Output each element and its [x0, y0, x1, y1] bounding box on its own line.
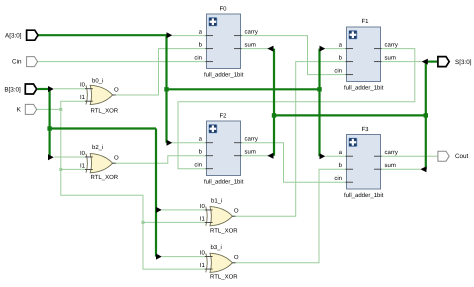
svg-text:a: a	[339, 150, 343, 156]
wire net K branch to b0_i.I1	[61, 101, 86, 109]
full adder F1 pin stubs	[346, 49, 382, 75]
svg-text:b: b	[199, 149, 203, 156]
full adder F3	[347, 135, 381, 190]
bus A junction dot	[164, 87, 168, 91]
svg-text:a: a	[339, 43, 343, 49]
wire b3_i.O to F3.b	[232, 169, 347, 263]
input port Cin	[27, 57, 38, 67]
full adder F2	[207, 121, 241, 176]
bus S merge arrow S2	[267, 153, 273, 159]
xor gate b1_i	[205, 207, 236, 226]
svg-text:sum: sum	[385, 163, 396, 169]
xor gate b3_i	[205, 253, 236, 272]
svg-text:RTL_XOR: RTL_XOR	[210, 227, 238, 234]
svg-text:S[3:0]: S[3:0]	[455, 59, 472, 66]
svg-text:carry: carry	[245, 30, 258, 36]
svg-text:F2: F2	[220, 113, 228, 120]
wire F3.sum to S bus merge	[381, 168, 421, 170]
svg-text:RTL_XOR: RTL_XOR	[91, 174, 119, 181]
svg-text:Cin: Cin	[12, 59, 22, 66]
wire A[0] tap to F0.a	[172, 35, 207, 37]
bus S merge arrow S1	[422, 59, 428, 65]
bus S right vertical	[425, 62, 427, 170]
full adder F0 pin stubs	[206, 36, 242, 62]
svg-text:b: b	[199, 42, 203, 49]
bus S merge arrow S0	[267, 46, 273, 52]
bus B branch horizontal	[50, 127, 156, 129]
svg-text:O: O	[234, 208, 239, 215]
wire b2_i.O to F2.b	[112, 156, 207, 164]
svg-text:O: O	[114, 86, 119, 93]
wire Cin to F0.cin	[38, 61, 207, 63]
wire A[2] tap to F2.a	[172, 142, 207, 144]
bus S horizontal	[274, 114, 426, 116]
svg-text:cin: cin	[194, 55, 202, 62]
xor gate b2_i	[85, 154, 116, 173]
bus A[3:0] horizontal from port	[38, 34, 167, 36]
svg-text:sum: sum	[385, 56, 396, 62]
svg-text:carry: carry	[385, 43, 398, 49]
bus B right vertical	[155, 129, 157, 257]
bus A right vertical	[318, 49, 320, 157]
bus S junction dot right	[424, 113, 428, 117]
svg-text:sum: sum	[245, 150, 256, 156]
full adder F0	[207, 14, 241, 69]
wire F1.sum to S bus merge	[381, 61, 422, 63]
bus A vertical	[165, 35, 167, 143]
svg-text:I1: I1	[80, 163, 86, 170]
svg-text:b0_i: b0_i	[92, 77, 103, 84]
svg-text:b3_i: b3_i	[211, 244, 222, 251]
svg-text:RTL_XOR: RTL_XOR	[210, 273, 238, 280]
bus A tap arrow to F1.a	[320, 46, 326, 52]
svg-text:I0: I0	[80, 82, 86, 89]
svg-text:a: a	[199, 137, 203, 143]
bus B tap arrow to b1_i	[156, 207, 162, 213]
svg-text:O: O	[234, 254, 239, 261]
svg-text:a: a	[199, 30, 203, 36]
bus S junction dot left	[272, 113, 276, 117]
svg-text:F3: F3	[362, 126, 370, 133]
wire net K vertical down	[61, 109, 206, 269]
bus A tap arrow to F3.a	[320, 153, 326, 159]
wire B[2] tap to b2_i.I0	[54, 156, 86, 158]
bus B vertical	[48, 89, 50, 157]
svg-text:b: b	[339, 55, 343, 62]
svg-text:RTL_XOR: RTL_XOR	[91, 107, 119, 114]
wire net K branch to b2_i.I1	[61, 168, 86, 170]
wire B[0] tap to b0_i.I0	[54, 88, 86, 90]
wire b0_i.O to F0.b	[112, 49, 207, 95]
wire net K from K port	[37, 108, 61, 110]
svg-text:O: O	[114, 155, 119, 162]
svg-text:F1: F1	[362, 18, 370, 25]
svg-text:full_adder_1bit: full_adder_1bit	[204, 72, 244, 79]
input port A[3:0]	[27, 30, 38, 40]
svg-text:I0: I0	[200, 203, 206, 210]
output port Cout	[438, 151, 449, 161]
bus B[3:0] horizontal from port	[38, 88, 50, 90]
svg-text:b2_i: b2_i	[92, 144, 103, 151]
svg-text:cin: cin	[194, 162, 202, 169]
wire net K branch to b1_i.I1	[143, 221, 206, 223]
svg-text:A[3:0]: A[3:0]	[5, 33, 22, 40]
svg-text:b1_i: b1_i	[211, 197, 222, 204]
svg-text:carry: carry	[245, 137, 258, 143]
input port K	[25, 104, 36, 114]
wire F2.carry to F3.cin	[241, 143, 347, 183]
wire A[1] tap to F1.a	[325, 48, 346, 50]
svg-text:full_adder_1bit: full_adder_1bit	[344, 85, 384, 92]
bus A branch horizontal	[167, 88, 320, 90]
svg-text:cin: cin	[334, 175, 342, 182]
svg-text:F0: F0	[220, 6, 228, 13]
wire F1.carry to F2.cin	[178, 49, 415, 169]
bus S horizontal to port	[426, 60, 438, 62]
svg-text:I0: I0	[200, 250, 206, 257]
wire b1_i.O to F1.b	[232, 62, 347, 217]
svg-text:carry: carry	[385, 150, 398, 156]
svg-text:I1: I1	[200, 216, 206, 223]
bus B junction dot	[47, 126, 51, 130]
output port S[3:0]	[438, 57, 449, 67]
wire F0.carry to F1.cin	[241, 36, 347, 75]
svg-text:sum: sum	[245, 43, 256, 49]
svg-text:cin: cin	[334, 68, 342, 75]
wire F2.sum to S bus merge	[241, 155, 269, 157]
wire B[1] tap to b1_i.I0	[162, 209, 206, 211]
svg-text:B[3:0]: B[3:0]	[4, 87, 21, 94]
bus A tap arrow to F2.a	[167, 140, 173, 146]
svg-text:full_adder_1bit: full_adder_1bit	[344, 192, 384, 199]
svg-text:K: K	[17, 107, 22, 114]
full adder F3 pin stubs	[346, 156, 382, 182]
junction dot K at b2_i.I1 branch	[59, 168, 62, 171]
bus B tap arrow to b2_i	[48, 154, 54, 160]
bus S merge arrow S3	[420, 166, 426, 172]
svg-text:I1: I1	[200, 262, 206, 269]
svg-text:full_adder_1bit: full_adder_1bit	[204, 179, 244, 186]
wire F0.sum to S bus merge	[241, 48, 269, 50]
bus A junction dot right	[317, 87, 321, 91]
bus B tap arrow to b3_i	[156, 254, 162, 260]
input port B[3:0]	[25, 84, 36, 94]
svg-text:I0: I0	[80, 150, 86, 157]
full adder F1	[347, 27, 381, 82]
wire F3.carry to Cout	[381, 155, 438, 157]
wire B[3] tap to b3_i.I0	[162, 256, 206, 258]
full adder F2 pin stubs	[206, 143, 242, 169]
bus S left vertical	[273, 49, 275, 156]
wire A[3] tap to F3.a	[325, 155, 346, 157]
junction dot K at port branch	[59, 108, 62, 111]
xor gate b0_i	[85, 85, 116, 104]
svg-text:Cout: Cout	[455, 153, 469, 160]
junction dot K at b1_i.I1 branch	[142, 221, 145, 224]
svg-text:b: b	[339, 162, 343, 169]
bus A tap arrow to F0.a	[167, 32, 173, 38]
bus B tap arrow to b0_i	[48, 86, 54, 92]
svg-text:I1: I1	[80, 94, 86, 101]
